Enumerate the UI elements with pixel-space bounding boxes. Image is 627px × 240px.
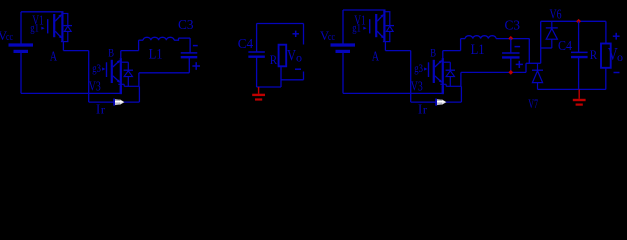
output plus (2) label bbox=[613, 35, 620, 37]
C3 jog wire bbox=[178, 38, 180, 41]
R (2) top lead bbox=[605, 21, 607, 43]
svg-text:g1: g1 bbox=[30, 22, 39, 34]
C3 (2) bottom lead bbox=[510, 57, 512, 72]
V3 conductor extension (2) bbox=[442, 86, 444, 94]
collector diagonal bbox=[113, 61, 120, 67]
gate electrode bar bbox=[47, 19, 49, 33]
junction dot C4 top bbox=[576, 19, 581, 24]
C3 bottom wire bbox=[188, 57, 190, 73]
left drop wire (2) bbox=[410, 51, 412, 103]
emitter diagonal bbox=[435, 76, 442, 82]
emitter diagonal bbox=[377, 31, 383, 37]
C4 bottom lead bbox=[256, 57, 258, 87]
load top rail bbox=[257, 23, 304, 25]
C3 (2) minus label bbox=[515, 46, 521, 48]
capacitor C4 (2) bbox=[571, 51, 588, 53]
C4 top lead bbox=[256, 24, 258, 53]
top rail (2) bbox=[343, 9, 386, 11]
resistor R (2) bbox=[601, 44, 611, 68]
battery plates bbox=[331, 43, 356, 46]
top rail bbox=[21, 11, 64, 13]
B riser wire (2) bbox=[460, 39, 462, 51]
junction dot pump rail bbox=[508, 70, 513, 75]
Vcc source wire bbox=[20, 12, 22, 45]
svg-text:o: o bbox=[617, 50, 623, 64]
C3 (2) plus label bbox=[516, 63, 523, 65]
emitter bottom wire bbox=[118, 83, 124, 85]
capacitor C4 bbox=[248, 51, 265, 53]
body bar bbox=[433, 60, 435, 83]
diode V7 bbox=[537, 63, 539, 70]
svg-text:cc: cc bbox=[328, 32, 335, 43]
svg-text:o: o bbox=[296, 51, 302, 65]
svg-text:V3: V3 bbox=[411, 79, 423, 94]
output port wire bbox=[281, 79, 304, 81]
C4 (2) top lead bbox=[578, 21, 580, 52]
gate lead arrow bbox=[41, 27, 44, 30]
node B wire (2) bbox=[443, 50, 461, 52]
pump rail bbox=[461, 71, 526, 73]
capacitor C3 (2) bbox=[502, 52, 520, 54]
collector-emitter conductor bbox=[120, 58, 122, 94]
svg-text:g3: g3 bbox=[92, 63, 101, 75]
svg-text:V3: V3 bbox=[89, 79, 101, 94]
battery plates bbox=[9, 43, 34, 46]
svg-text:r: r bbox=[101, 103, 105, 117]
inductor coil arcs bbox=[465, 36, 496, 39]
R bottom lead bbox=[280, 66, 282, 87]
svg-text:A: A bbox=[372, 49, 380, 64]
svg-text:R: R bbox=[590, 47, 598, 62]
antiparallel diode bbox=[384, 11, 390, 13]
C3 (2) top lead bbox=[510, 38, 512, 53]
diode V6 bbox=[551, 21, 553, 27]
pump rail corner bbox=[525, 63, 527, 72]
body bar bbox=[53, 14, 55, 37]
svg-text:V: V bbox=[287, 48, 296, 65]
collector diagonal bbox=[55, 15, 61, 21]
emitter bottom wire (2) bbox=[440, 83, 446, 85]
negative rail bbox=[21, 92, 121, 94]
antiparallel diode bbox=[443, 61, 451, 63]
V3 conductor extension bbox=[120, 86, 122, 94]
current direction arrow Ir bbox=[113, 99, 115, 106]
node B wire bbox=[121, 50, 139, 52]
ground symbol bbox=[578, 89, 580, 98]
output minus label bbox=[295, 68, 301, 70]
svg-text:L1: L1 bbox=[471, 42, 485, 58]
svg-text:V6: V6 bbox=[550, 6, 562, 21]
body bar bbox=[111, 60, 113, 83]
svg-text:C3: C3 bbox=[178, 18, 194, 33]
svg-text:B: B bbox=[430, 46, 436, 60]
svg-text:cc: cc bbox=[6, 32, 13, 43]
C4 (2) bottom lead bbox=[578, 57, 580, 89]
node A wire (2) bbox=[384, 41, 386, 51]
emitter diagonal bbox=[113, 76, 120, 82]
C3 plus label bbox=[192, 65, 200, 67]
svg-text:g1: g1 bbox=[352, 22, 361, 34]
junction dot C3 top bbox=[508, 36, 513, 41]
collector-emitter conductor bbox=[383, 10, 385, 42]
Ir return wire bbox=[89, 101, 140, 103]
capacitor C3 bbox=[181, 52, 198, 54]
collector diagonal bbox=[377, 15, 383, 21]
antiparallel diode bbox=[121, 61, 129, 63]
svg-text:R: R bbox=[270, 52, 278, 67]
emitter corner wire (2) bbox=[460, 86, 462, 102]
Vcc source wire (2) bbox=[342, 10, 344, 45]
svg-text:B: B bbox=[108, 46, 114, 60]
output minus (2) label bbox=[614, 72, 620, 74]
B riser wire bbox=[138, 40, 140, 50]
resistor R bbox=[279, 45, 287, 67]
gate lead arrow bbox=[363, 27, 366, 30]
gate electrode bar bbox=[106, 62, 108, 77]
collector-emitter conductor bbox=[61, 12, 63, 42]
gate lead arrow bbox=[424, 67, 427, 70]
Ir return wire (2) bbox=[411, 101, 462, 103]
svg-text:L1: L1 bbox=[149, 47, 163, 63]
inductor coil arcs bbox=[143, 37, 174, 40]
coil to C3 wire bbox=[174, 39, 179, 41]
gate electrode bar bbox=[428, 62, 430, 77]
emitter corner wire bbox=[138, 86, 140, 102]
diode-emitter bottom link bbox=[61, 41, 69, 43]
battery negative wire (2) bbox=[342, 51, 344, 93]
pump rail return drop bbox=[460, 72, 462, 86]
output plus label bbox=[293, 33, 299, 35]
R (2) bottom lead bbox=[605, 68, 607, 90]
V6 bottom link bbox=[541, 47, 552, 49]
ground symbol bbox=[258, 87, 260, 94]
diode-emitter bottom link bbox=[383, 41, 391, 43]
svg-text:V7: V7 bbox=[528, 97, 538, 111]
coil feed wire (2) bbox=[461, 38, 466, 40]
node A wire bbox=[62, 41, 64, 51]
antiparallel diode bbox=[62, 13, 68, 15]
body bar bbox=[375, 14, 377, 37]
svg-text:g3: g3 bbox=[414, 63, 423, 75]
pump riser wire bbox=[540, 21, 542, 63]
gate lead arrow bbox=[102, 67, 105, 70]
load bottom wire bbox=[257, 86, 281, 88]
C3 minus label bbox=[193, 45, 198, 47]
svg-text:r: r bbox=[423, 103, 427, 117]
current direction arrow Ir bbox=[435, 99, 437, 106]
collector diagonal bbox=[435, 61, 442, 67]
load rail (2) bbox=[538, 88, 606, 90]
gate electrode bar bbox=[369, 19, 371, 33]
svg-text:C4: C4 bbox=[558, 39, 572, 54]
svg-text:C4: C4 bbox=[238, 37, 254, 52]
emitter diagonal bbox=[55, 31, 61, 37]
output top wire (2) bbox=[541, 20, 606, 22]
svg-text:A: A bbox=[50, 49, 58, 64]
svg-text:C3: C3 bbox=[505, 19, 521, 34]
negative rail (2) bbox=[343, 92, 443, 94]
C3 return drop bbox=[138, 73, 140, 86]
pump branch wire bbox=[528, 38, 530, 63]
coil to C3 wire (2) bbox=[496, 38, 529, 40]
battery negative wire bbox=[20, 51, 22, 93]
left drop wire bbox=[88, 51, 90, 103]
coil feed wire bbox=[139, 39, 144, 41]
collector-emitter conductor bbox=[442, 58, 444, 94]
